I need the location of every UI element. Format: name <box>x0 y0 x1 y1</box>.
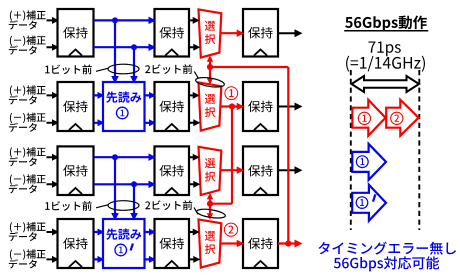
wire U42->M4 upper <box>189 229 200 236</box>
wire input(+) arrow row4 <box>47 229 60 236</box>
label input データ(-) row4 <box>9 259 37 268</box>
label LA2 prime mark <box>131 244 133 251</box>
label input (+)補正 row1 <box>10 10 46 20</box>
node row3 lower tap <box>131 181 137 187</box>
wire blue row3 lower U31->U32 <box>94 181 157 189</box>
label circled 1 at M2 output <box>225 87 238 100</box>
mux M2 (選択) row2 <box>199 82 222 130</box>
leader 2ビット前 bottom <box>194 208 198 215</box>
label circled 1 in red arrow <box>358 112 370 124</box>
label input (-)補正 row2 <box>10 113 46 123</box>
label 56Gbps対応可能 <box>334 256 439 271</box>
wire red select down into M4 <box>207 204 213 220</box>
label circled 1 in blue arrow <box>356 156 368 168</box>
mux M1 (選択) row1 <box>199 9 222 57</box>
ellipse marker blue taps rows1-2 <box>108 64 139 74</box>
label 71ps <box>368 41 400 56</box>
wire U12->M1 lower <box>189 44 200 51</box>
wire blue LA->U22 upper <box>145 92 157 99</box>
wire red M4 output -> U43 <box>221 240 244 247</box>
wire red select up into M1 <box>207 55 213 67</box>
wire red select bus horizontal row1-2 <box>210 66 288 68</box>
leader 1ビット前 bottom <box>96 205 109 208</box>
label LA2 circled 1 <box>115 244 127 256</box>
wire blue row3 upper U31->U32 <box>94 153 157 161</box>
wire blue U41->LA upper <box>94 229 105 236</box>
label input (+)補正 row4 <box>10 222 46 232</box>
wire U12->M1 upper <box>189 17 200 24</box>
wire blue U41->LA lower <box>94 256 105 263</box>
node row3 upper tap <box>112 154 118 160</box>
wire U32->M3 upper <box>189 154 200 161</box>
wire blue vertical drop 2 row3 <box>130 184 138 220</box>
wire red feedback from M2 output vertical <box>231 107 233 204</box>
lookahead LA2 (先読み①') <box>103 219 145 268</box>
wire output row1 <box>278 29 303 37</box>
wire blue LA->U22 lower <box>145 119 157 126</box>
label circled 1prime in blue arrow <box>356 197 368 209</box>
label (=1/14GHz) <box>346 56 425 72</box>
wire red final output row4 <box>278 240 303 248</box>
label 1ビット前 bottom <box>45 201 92 211</box>
label 2ビット前 top <box>145 64 192 74</box>
wire red select up into M3 <box>207 193 213 204</box>
leader 1ビット前 top <box>96 68 109 71</box>
wire blue row1 lower U11->U12 <box>94 44 157 52</box>
wire input(-) arrow row4 <box>47 256 60 263</box>
wire red M1 output -> U13 <box>221 30 244 38</box>
label circled 2 in red arrow <box>391 112 403 124</box>
label input データ(+) row2 <box>9 95 37 104</box>
latch U41 (保持) row4 col1 <box>58 219 94 268</box>
dashed timing line left <box>350 70 352 230</box>
wire U32->M3 lower <box>189 181 200 188</box>
latch U43 (保持) row4 col3 <box>243 219 278 268</box>
label input データ(-) row1 <box>9 45 37 54</box>
label input (+)補正 row2 <box>10 85 46 95</box>
wire red M3 output -> U33 <box>221 166 244 174</box>
ellipse marker blue taps rows3-4 <box>108 201 139 211</box>
latch U23 (保持) row2 col3 <box>243 82 278 131</box>
wire red select down into M2 <box>207 67 213 85</box>
leader 2ビット前 top <box>194 72 198 79</box>
wire blue vertical drop 1 row3 <box>111 157 119 220</box>
wire red feedback horizontal to select <box>210 203 232 205</box>
label 2ビット前 bottom <box>145 200 192 210</box>
wire input(-) arrow row3 <box>47 181 60 188</box>
wire blue LA->U42 lower <box>145 256 157 263</box>
double-headed arrow 71ps span <box>352 76 420 92</box>
wire U22->M2 upper <box>189 92 200 99</box>
block arrow red 2 <box>386 100 418 136</box>
wire blue U21->LA upper <box>94 92 105 99</box>
dashed timing line right <box>418 70 420 230</box>
mux M3 (選択) row3 <box>199 147 222 195</box>
wire U22->M2 lower <box>189 119 200 126</box>
label 1ビット前 top <box>45 64 92 74</box>
label input データ(-) row2 <box>9 123 37 132</box>
label タイミングエラー無し <box>318 242 456 255</box>
block arrow blue 1prime <box>352 185 386 221</box>
wire red M2 output -> U23 <box>221 103 244 110</box>
underline title <box>344 30 428 32</box>
node final output join <box>285 240 291 246</box>
wire blue LA->U42 upper <box>145 229 157 236</box>
label input (-)補正 row1 <box>10 36 46 46</box>
label LA1 circled 1 <box>116 107 128 119</box>
node select junction rows1-2 <box>207 64 213 70</box>
ellipse marker select rows3-4 <box>196 208 226 220</box>
latch U11 (保持) row1 col1 <box>58 9 94 57</box>
latch U21 (保持) row2 col1 <box>58 82 94 131</box>
wire red select bus vertical right <box>287 67 289 244</box>
wire blue vertical drop 2 row1 <box>130 47 138 83</box>
label input (-)補正 row4 <box>10 249 46 259</box>
wire input(+) arrow row1 <box>47 17 60 24</box>
wire blue U21->LA lower <box>94 119 105 126</box>
latch U22 (保持) row2 col2 <box>155 82 190 131</box>
latch U33 (保持) row3 col3 <box>243 146 278 195</box>
label circled 2 at M4 output <box>224 223 237 236</box>
latch U31 (保持) row3 col1 <box>58 146 94 195</box>
wire blue vertical drop 1 row1 <box>111 20 119 83</box>
label input (+)補正 row3 <box>10 147 46 157</box>
ellipse marker select rows1-2 <box>195 76 225 89</box>
node select junction rows3-4 <box>207 201 213 207</box>
label title 56Gbps動作 <box>345 16 427 31</box>
wire input(-) arrow row1 <box>47 44 60 51</box>
wire input(+) arrow row2 <box>47 92 60 99</box>
wire output row2 <box>278 103 303 111</box>
wire U42->M4 lower <box>189 256 200 263</box>
latch U42 (保持) row4 col2 <box>155 219 190 268</box>
label prime mark blue arrow <box>373 194 375 201</box>
label input データ(+) row3 <box>9 157 37 166</box>
mux M4 (選択) row4 <box>199 219 222 267</box>
node M2 output tap <box>229 103 235 109</box>
label input データ(+) row4 <box>9 232 37 241</box>
block arrow red 1 <box>352 100 385 136</box>
latch U13 (保持) row1 col3 <box>243 9 278 57</box>
wire input(-) arrow row2 <box>47 119 60 126</box>
wire input(+) arrow row3 <box>47 154 60 161</box>
label input データ(+) row1 <box>9 20 37 29</box>
label input データ(-) row3 <box>9 184 37 193</box>
latch U12 (保持) row1 col2 <box>155 9 190 57</box>
wire output row3 <box>278 166 303 174</box>
wire blue row1 upper U11->U12 <box>94 17 157 25</box>
lookahead LA1 (先読み①) <box>103 82 145 131</box>
label input (-)補正 row3 <box>10 174 46 184</box>
node row1 upper tap <box>112 17 118 23</box>
latch U32 (保持) row3 col2 <box>155 146 190 195</box>
node row1 lower tap <box>131 44 137 50</box>
block arrow blue 1 <box>352 144 386 180</box>
